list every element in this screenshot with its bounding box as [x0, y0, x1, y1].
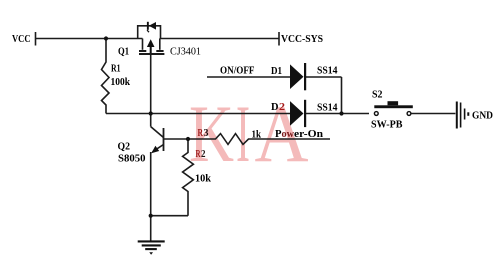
svg-text:I: I — [236, 88, 250, 179]
junction dot D1/D2 cathodes — [339, 111, 343, 115]
wire switch to GND terminal — [412, 113, 456, 115]
svg-text:ON/OFF: ON/OFF — [220, 66, 255, 77]
GND terminal bars — [457, 102, 469, 129]
svg-text:VCC-SYS: VCC-SYS — [281, 33, 323, 45]
transistor Q1 body-diode loop — [138, 26, 161, 39]
node VCC terminal bar — [35, 32, 37, 46]
wire Q2 emitter down — [150, 152, 152, 241]
wire main VCC rail — [36, 38, 143, 40]
svg-text:2: 2 — [279, 102, 285, 113]
junction dot at VCC/R1 — [104, 36, 108, 40]
wire horizontal mid rail — [106, 113, 290, 115]
svg-text:2: 2 — [201, 148, 206, 160]
transistor Q2 emitter arrow — [151, 146, 159, 153]
diode D2 — [290, 100, 306, 127]
svg-text:3: 3 — [204, 127, 209, 139]
svg-text:GND: GND — [472, 110, 493, 122]
svg-text:SS14: SS14 — [317, 103, 338, 114]
junction dot Q1 gate / mid rail — [149, 111, 153, 115]
resistor R3 — [188, 134, 330, 145]
svg-text:Q1: Q1 — [118, 47, 129, 58]
wire corner down to D2 rail — [341, 77, 343, 114]
svg-text:CJ3401: CJ3401 — [170, 47, 201, 58]
svg-text:1k: 1k — [252, 129, 262, 141]
wire R2 bottom to emitter — [151, 215, 188, 217]
svg-text:D: D — [271, 102, 279, 113]
resistor R2 — [183, 139, 194, 216]
svg-text:Q2: Q2 — [118, 141, 131, 153]
transistor Q1 plates and gate — [142, 39, 144, 50]
ground symbol — [138, 241, 165, 249]
svg-text:SW-PB: SW-PB — [371, 119, 403, 131]
svg-text:10k: 10k — [195, 173, 212, 185]
junction dot base/R2/R3 — [186, 137, 190, 141]
junction dot emitter/R2/ground — [149, 214, 153, 218]
wire junction to switch — [342, 113, 370, 115]
svg-text:S8050: S8050 — [118, 153, 146, 165]
svg-text:K: K — [189, 88, 234, 179]
transistor Q2 — [151, 127, 164, 138]
diode Q1 body diode symbol — [147, 22, 156, 33]
resistor R1 — [102, 39, 110, 114]
wire Q1 gate lead down to node — [150, 54, 152, 127]
node VCC-SYS terminal bar — [278, 32, 280, 46]
svg-text:VCC: VCC — [12, 33, 31, 45]
diode D1 — [290, 63, 306, 90]
wire D1 cathode to corner — [306, 76, 342, 78]
svg-text:R1: R1 — [111, 63, 121, 75]
wire D2 cathode to junction — [306, 113, 342, 115]
svg-text:ow: ow — [282, 129, 295, 140]
svg-text:er-On: er-On — [294, 129, 323, 140]
watermark KIA — [189, 88, 309, 179]
transistor Q1 arrow — [147, 39, 155, 53]
svg-text:100k: 100k — [111, 76, 131, 88]
svg-text:D1: D1 — [271, 66, 282, 77]
wire ON/OFF stub — [207, 76, 290, 78]
svg-text:S2: S2 — [372, 89, 383, 101]
switch S2 — [374, 101, 413, 115]
svg-text:SS14: SS14 — [317, 66, 338, 77]
